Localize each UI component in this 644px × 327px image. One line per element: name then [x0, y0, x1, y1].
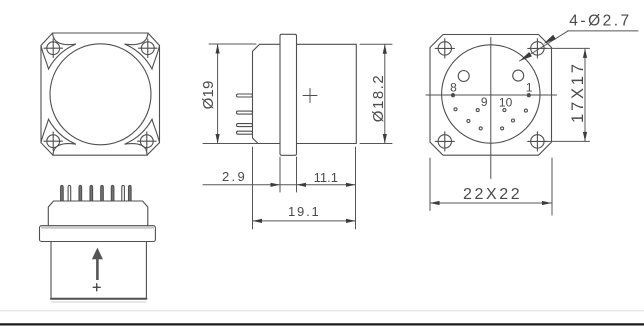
svg-text:10: 10 — [499, 96, 513, 110]
bottom view pin 7 — [122, 185, 125, 201]
svg-text:Ø19: Ø19 — [200, 80, 217, 109]
pin hole e — [467, 120, 470, 123]
svg-text:11.1: 11.1 — [314, 170, 338, 185]
bottom view body bottom edge — [51, 298, 146, 300]
mounting hole BR (front view) — [138, 132, 157, 151]
svg-text:8: 8 — [450, 81, 457, 95]
mounting hole BL (rear view) — [435, 132, 454, 151]
key hole left — [458, 71, 469, 82]
pin hole c — [503, 109, 506, 112]
bottom view body shadow line — [52, 301, 147, 303]
svg-text:19.1: 19.1 — [288, 204, 321, 219]
dimension group — [203, 31, 638, 229]
table top faint line — [0, 310, 644, 312]
dim line 19.1 — [253, 220, 356, 222]
polarity arrow — [92, 248, 103, 280]
svg-text:1: 1 — [526, 80, 533, 94]
mounting hole BL (front view) — [44, 132, 63, 151]
side view pin 3 — [237, 124, 253, 127]
pin hole g — [479, 127, 482, 130]
polarity plus mark — [93, 284, 100, 291]
side view pin 1 — [237, 94, 253, 97]
bottom view body — [51, 242, 146, 299]
pin hole b — [476, 109, 479, 112]
side view pin 4 — [237, 131, 253, 134]
mounting hole TL (front view) — [44, 39, 63, 58]
dia18.2 bottom extension line — [360, 143, 392, 145]
svg-text:22X22: 22X22 — [463, 186, 522, 203]
ext line body left — [252, 147, 254, 229]
side view center plus mark — [303, 89, 317, 103]
bottom view pin 8 — [129, 185, 132, 201]
mounting hole TL (rear view) — [435, 39, 454, 58]
mounting hole TR (rear view) — [528, 39, 547, 58]
bottom view pin 4 — [90, 185, 93, 201]
side view flange plate — [280, 34, 297, 155]
corner gusset BL — [41, 119, 76, 155]
leader underline 4-dia2.7 — [568, 30, 639, 32]
ext line flange left — [279, 157, 281, 192]
arrow dia18.2 up — [383, 44, 387, 54]
svg-text:17X17: 17X17 — [569, 61, 587, 123]
bottom side view group — [40, 185, 156, 302]
22x22 right extension line — [551, 158, 553, 215]
key hole right — [513, 70, 524, 81]
leader line 4-dia2.7 — [520, 31, 569, 61]
bottom view insulator block — [48, 201, 148, 226]
bottom view pin 6 — [111, 185, 114, 201]
arrowheads — [216, 35, 588, 223]
corner gusset TL — [41, 33, 76, 69]
rear view flange outline (octagon) — [430, 35, 552, 156]
arrow 17x17 down — [583, 132, 587, 142]
bottom view pin 2 — [68, 185, 71, 201]
dia19 dimension line — [217, 44, 219, 144]
17x17 top extension line — [545, 47, 590, 49]
arrow 2.9 right — [271, 183, 281, 187]
side view right shell section — [297, 44, 357, 143]
border heavy line — [0, 323, 644, 325]
side view left insulator section — [253, 44, 281, 143]
arrow 17x17 up — [583, 48, 587, 58]
arrow 11.1 left — [297, 183, 307, 187]
22x22 left extension line — [429, 158, 431, 211]
22x22 dimension line — [430, 202, 552, 204]
svg-text:Ø18.2: Ø18.2 — [370, 74, 387, 122]
dim line 2.9 / 11.1 — [203, 184, 356, 186]
front view flange outline (octagon) — [41, 33, 160, 155]
pin 8 dot — [451, 94, 454, 97]
bottom view pin 1 — [61, 185, 64, 201]
rear view shell circle — [442, 45, 540, 143]
dia19 top extension line — [209, 43, 256, 45]
arrow dia19 down — [216, 134, 220, 144]
bottom view pin 5 — [101, 185, 104, 201]
pin 1 dot — [527, 94, 530, 97]
pin hole d — [524, 109, 527, 112]
arrow 22x22 right — [542, 201, 552, 205]
rear view horizontal centerline — [426, 94, 557, 96]
pin hole h — [501, 127, 504, 130]
front view shell circle — [50, 44, 151, 145]
mounting hole TR (front view) — [139, 39, 158, 58]
rear view vertical centerline — [490, 38, 492, 179]
pin hole f — [512, 119, 515, 122]
arrow dia19 up — [216, 44, 220, 54]
pin hole a — [454, 108, 457, 111]
ext line flange right — [296, 157, 298, 192]
bottom view pin 3 — [79, 185, 82, 201]
dia18.2 dimension line — [384, 44, 386, 143]
bottom view flange plate — [40, 226, 156, 242]
17x17 bottom extension line — [545, 140, 590, 142]
17x17 dimension line — [584, 48, 586, 141]
svg-text:9: 9 — [481, 95, 488, 109]
bottom view flange shading — [42, 227, 153, 229]
leader arrowhead end — [520, 52, 532, 61]
arrow 19.1 left — [253, 219, 263, 223]
svg-text:4-Ø2.7: 4-Ø2.7 — [569, 12, 631, 29]
corner gusset BR — [125, 119, 160, 155]
corner gusset TR — [125, 33, 160, 69]
ext line body right — [355, 147, 357, 229]
arrow 19.1 right — [346, 219, 356, 223]
side view pin 2 — [237, 111, 253, 114]
arrow 11.1 right — [346, 183, 356, 187]
dia19 bottom extension line — [203, 143, 258, 145]
arrow dia18.2 down — [383, 134, 387, 144]
mounting hole BR (rear view) — [528, 132, 547, 151]
svg-text:2.9: 2.9 — [222, 169, 247, 184]
arrow 22x22 left — [430, 201, 440, 205]
dia18.2 top extension line — [360, 43, 392, 45]
leader arrowhead at hole — [544, 35, 556, 44]
